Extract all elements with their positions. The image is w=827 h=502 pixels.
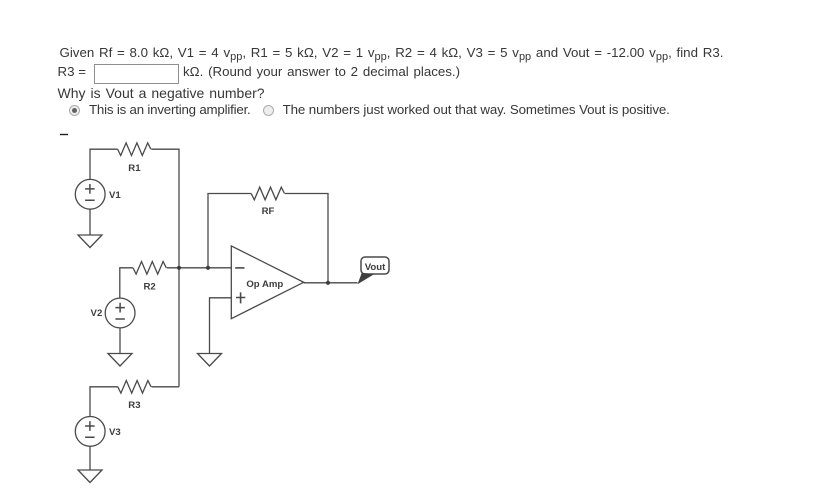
svg-text:V2: V2 bbox=[91, 308, 103, 319]
svg-text:V1: V1 bbox=[109, 190, 121, 201]
svg-text:R3: R3 bbox=[128, 400, 140, 411]
svg-text:Op Amp: Op Amp bbox=[246, 279, 283, 290]
svg-text:RF: RF bbox=[262, 206, 275, 217]
svg-text:R2: R2 bbox=[143, 282, 155, 293]
svg-text:Vout: Vout bbox=[365, 262, 386, 273]
svg-text:V3: V3 bbox=[109, 427, 121, 438]
svg-text:R1: R1 bbox=[128, 163, 141, 174]
